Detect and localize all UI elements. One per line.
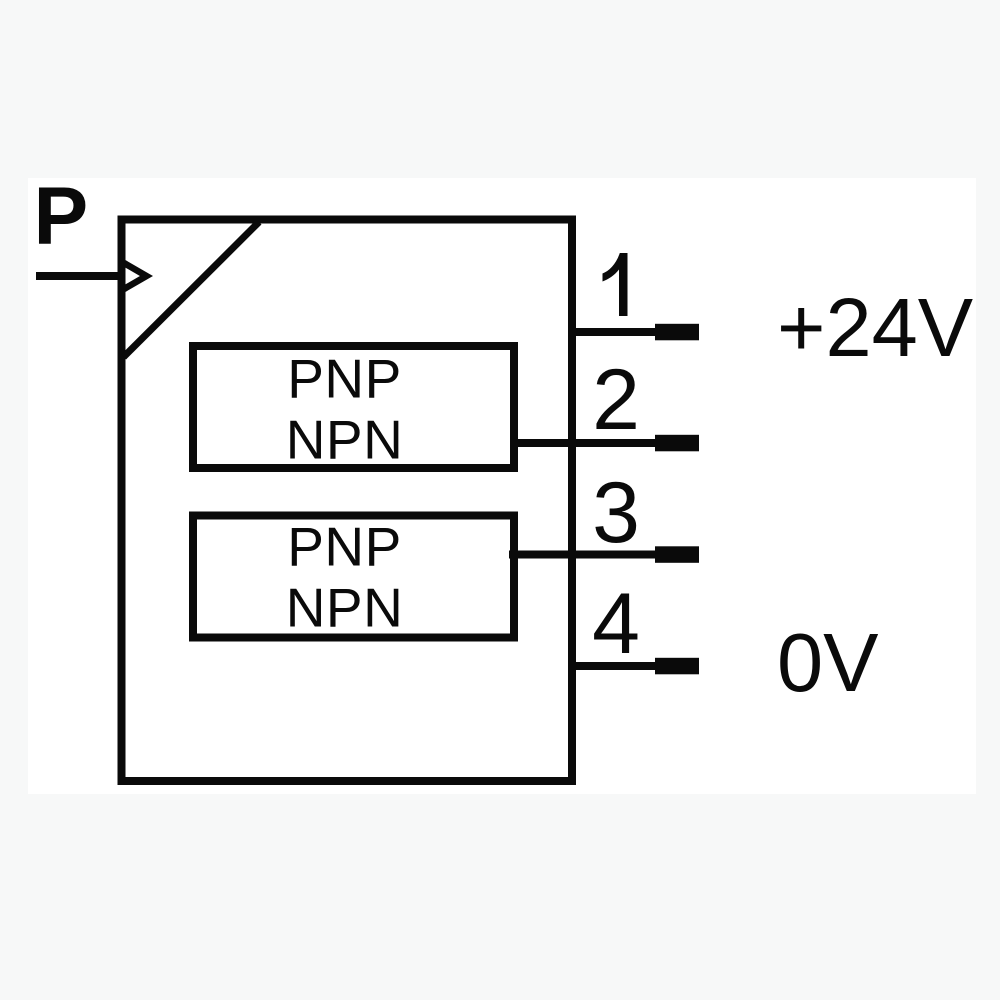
wire pin 1 [572,328,658,336]
pressure input wire P [36,272,122,280]
terminal lug pin 2 [655,435,699,452]
svg-text:PNP: PNP [287,348,402,410]
terminal lug pin 4 [655,658,699,675]
wire pin 4 [572,662,658,670]
svg-text:0V: 0V [777,616,879,709]
arrowhead at P input [124,263,147,289]
sensor body U1 (outer box) [122,220,573,782]
terminal lug pin 1 [655,324,699,341]
svg-text:3: 3 [592,465,640,561]
svg-text:P: P [34,171,89,262]
svg-text:NPN: NPN [286,409,404,471]
terminal lug pin 3 [655,546,699,563]
wire pin 3 [509,551,658,559]
switch block 2 (PNP/NPN box) [193,516,514,638]
svg-text:NPN: NPN [286,577,404,639]
svg-text:+24V: +24V [777,281,973,374]
wire pin 2 [510,439,658,447]
svg-text:2: 2 [592,352,640,448]
white drawing area [28,178,976,794]
svg-text:PNP: PNP [287,516,402,578]
switch block 1 (PNP/NPN box) [193,346,514,468]
diagonal adjustment mark [124,222,259,357]
pin number 1 [603,253,628,316]
svg-text:4: 4 [592,576,640,672]
